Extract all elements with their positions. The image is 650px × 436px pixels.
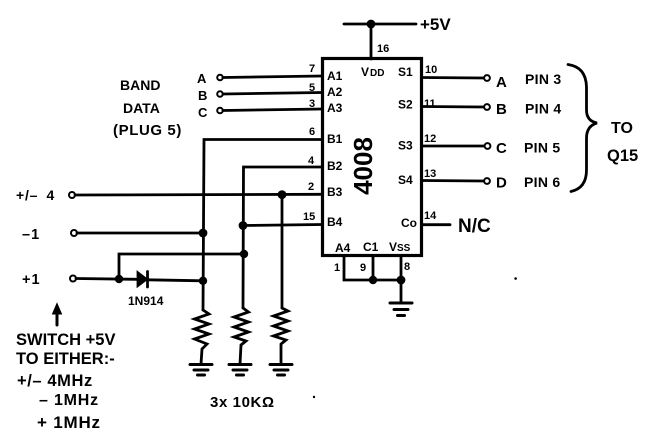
wire +1 branch to B2/B4 net [119,254,244,279]
node junction +1 branch [115,275,123,283]
svg-text:B: B [496,101,507,118]
wire B3 net vertical [281,195,284,308]
wire B1 net [203,140,322,311]
node junction Vss/bus [397,276,406,285]
wire B4 stub [243,225,322,226]
svg-text:1N914: 1N914 [128,294,164,308]
wire Co stub [422,223,450,226]
svg-text:–1: –1 [22,227,40,243]
svg-text:3x 10KΩ: 3x 10KΩ [210,394,275,411]
svg-text:+/– 4MHz: +/– 4MHz [17,372,93,390]
ground under R2 [229,365,251,376]
svg-text:+ 1MHz: + 1MHz [37,413,101,432]
svg-text:+5V: +5V [420,15,451,34]
node junction diode/B1 net [199,277,207,285]
svg-text:11: 11 [424,98,436,110]
svg-text:13: 13 [424,168,436,180]
wire S2 output [422,105,484,108]
node output D terminal [484,178,490,184]
wire pin 9 C1 stub [372,256,375,281]
svg-text:3: 3 [309,98,315,110]
svg-text:S2: S2 [398,98,413,112]
svg-text:A3: A3 [327,101,343,115]
svg-text:2: 2 [308,181,314,193]
svg-text:DD: DD [370,68,384,79]
svg-text:B2: B2 [327,159,343,173]
node output A terminal [484,75,490,81]
svg-text:V: V [361,65,369,79]
svg-text:S1: S1 [398,65,413,79]
resistor R1 [195,310,210,364]
svg-text:Q15: Q15 [607,147,638,165]
wire Vdd pin 16 [370,24,373,59]
resistor R2 [234,308,249,364]
svg-text:B3: B3 [327,185,343,199]
svg-text:+1: +1 [22,272,41,288]
ground under Vss [390,303,412,316]
svg-text:DATA: DATA [123,100,160,116]
wire B2 net [243,167,322,308]
wire +5V rail [344,23,416,26]
speck [313,396,315,398]
wire pin 8 Vss stub [400,256,403,304]
svg-text:(PLUG 5): (PLUG 5) [113,122,182,139]
svg-text:16: 16 [377,43,389,55]
svg-text:1: 1 [334,262,340,274]
svg-text:– 1MHz: – 1MHz [39,392,99,409]
svg-text:PIN 3: PIN 3 [525,71,562,87]
svg-text:S4: S4 [398,173,413,187]
svg-text:7: 7 [309,63,315,75]
node junction C1/bus [369,276,377,284]
svg-text:PIN 6: PIN 6 [524,174,561,190]
svg-text:PIN 5: PIN 5 [524,140,561,156]
svg-text:TO: TO [611,120,633,137]
node junction -1/B1 [199,229,208,238]
wire S3 output [422,145,484,148]
svg-text:SWITCH +5V: SWITCH +5V [16,331,115,349]
wire diode to B1 net [148,280,204,281]
op IC U1 4008 body [323,59,422,256]
svg-text:A: A [197,71,207,86]
wire A to A1 [223,76,322,78]
svg-text:C: C [198,105,208,120]
svg-text:+/– 4: +/– 4 [16,187,55,203]
svg-text:8: 8 [404,261,410,273]
node junction +5V [367,20,376,29]
resistor R3 [274,308,289,364]
svg-text:A4: A4 [335,241,351,255]
ground under R1 [190,365,212,376]
wire -1 to B1 net [77,232,203,235]
node junction B3 net [278,190,287,199]
svg-text:S3: S3 [398,139,413,153]
svg-text:TO EITHER:-: TO EITHER:- [16,350,115,368]
svg-text:C: C [496,140,507,157]
wire +1 to diode [76,277,138,281]
brace to Q15 [568,65,597,192]
svg-text:12: 12 [424,133,436,145]
svg-text:B4: B4 [327,215,343,229]
svg-text:A1: A1 [327,69,343,83]
svg-text:PIN 4: PIN 4 [525,101,562,117]
wire S1 output [422,76,484,79]
svg-text:A2: A2 [327,85,343,99]
svg-text:9: 9 [360,262,366,274]
wire +/-4 to B3 [75,193,322,196]
node output B terminal [484,104,490,110]
svg-text:BAND: BAND [120,77,160,93]
svg-text:15: 15 [303,211,315,223]
svg-text:V: V [389,240,397,254]
svg-text:B1: B1 [327,132,343,146]
svg-text:10: 10 [425,64,437,76]
svg-text:4: 4 [308,155,315,167]
node junction branch/B2 net [240,250,248,258]
svg-text:A: A [496,74,507,91]
svg-text:C1: C1 [363,240,379,254]
svg-text:6: 6 [309,126,315,138]
diode D1 1N914 [138,272,148,287]
svg-text:14: 14 [424,210,437,222]
svg-text:4008: 4008 [348,137,378,195]
node output C terminal [485,143,491,149]
wire pin 1 A4 stub [344,256,401,281]
wire C to A3 [223,109,322,111]
svg-text:D: D [496,175,507,192]
wire S4 output [422,179,484,182]
node junction B4 net [239,221,248,230]
svg-text:5: 5 [309,82,315,94]
ground under R3 [270,365,292,376]
svg-text:N/C: N/C [458,216,491,237]
annotation arrow up [56,310,59,325]
wire B to A2 [223,93,322,95]
svg-text:Co: Co [401,216,417,230]
speck [514,277,517,280]
svg-text:B: B [198,88,207,103]
svg-text:SS: SS [397,243,411,254]
